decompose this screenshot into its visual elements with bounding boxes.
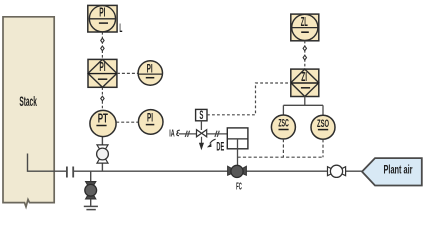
- signal split to limit switches: [283, 97, 323, 116]
- process tap line inside stack: [28, 154, 67, 172]
- three-way solenoid valve: [197, 130, 207, 137]
- svg-text:PI: PI: [147, 62, 153, 76]
- field pressure gauge PI (lower): [138, 110, 163, 135]
- svg-text:PI: PI: [99, 59, 105, 74]
- svg-text:PT: PT: [98, 111, 108, 126]
- stack vessel: [3, 17, 54, 207]
- svg-text:ZL: ZL: [301, 14, 308, 29]
- solenoid actuator S: [196, 109, 207, 130]
- root valve stem: [101, 137, 103, 172]
- svg-text:PI: PI: [147, 111, 153, 125]
- actuator stem: [237, 139, 239, 166]
- pressure transmitter PT: [90, 110, 116, 136]
- svg-text:PI: PI: [99, 5, 105, 20]
- svg-text:IA: IA: [169, 128, 174, 139]
- data link PT to shared PI: [101, 87, 104, 110]
- panel indicator PI with low alarm: [88, 5, 117, 32]
- solenoid signal dashed to ZI: [207, 83, 291, 115]
- limit switch signal dashed lines: [238, 139, 324, 157]
- pneumatic line to actuator: [207, 131, 228, 137]
- dashed link PT to PI gauge: [116, 121, 138, 123]
- data link between PI displays: [101, 32, 104, 59]
- block valve: [328, 165, 346, 177]
- drain stem: [90, 171, 92, 182]
- piston actuator: [227, 128, 248, 149]
- svg-text:FC: FC: [236, 182, 242, 193]
- position light ZL: [291, 14, 319, 41]
- main impulse pipe: [74, 170, 362, 172]
- de-energized label DE: [216, 140, 224, 154]
- svg-text:ZI: ZI: [301, 69, 307, 84]
- svg-text:ZSC: ZSC: [278, 118, 289, 130]
- svg-text:S: S: [199, 109, 203, 122]
- root valve: [97, 145, 109, 163]
- PLC shared indicator PI (diamond in square): [88, 59, 117, 87]
- drain valve (closed): [85, 182, 97, 199]
- vent port arrow: [199, 137, 204, 151]
- insulating joint ticks: [67, 167, 73, 178]
- control valve FC (fail closed): [228, 165, 247, 177]
- svg-text:Plant air: Plant air: [384, 163, 413, 177]
- limit switch open ZSO: [311, 115, 335, 139]
- svg-text:L: L: [119, 23, 122, 35]
- instrument air label IA: [169, 128, 174, 139]
- supply squiggle: [177, 130, 180, 136]
- pneumatic supply line to solenoid valve: [179, 131, 197, 137]
- svg-text:ZSO: ZSO: [317, 118, 329, 130]
- DE pointer arrow: [207, 139, 216, 147]
- plant air source flag: [362, 158, 422, 185]
- dashed link shared PI to gauge: [117, 72, 138, 74]
- data link ZL to ZI: [303, 41, 306, 69]
- position indicator ZI (diamond in square): [291, 69, 319, 97]
- FC label: [236, 182, 242, 193]
- low alarm label L: [119, 23, 122, 35]
- limit switch closed ZSC: [271, 115, 295, 139]
- svg-text:DE: DE: [216, 140, 224, 154]
- drain vent: [84, 199, 98, 209]
- field pressure gauge PI (upper): [138, 61, 162, 85]
- svg-text:Stack: Stack: [19, 93, 37, 109]
